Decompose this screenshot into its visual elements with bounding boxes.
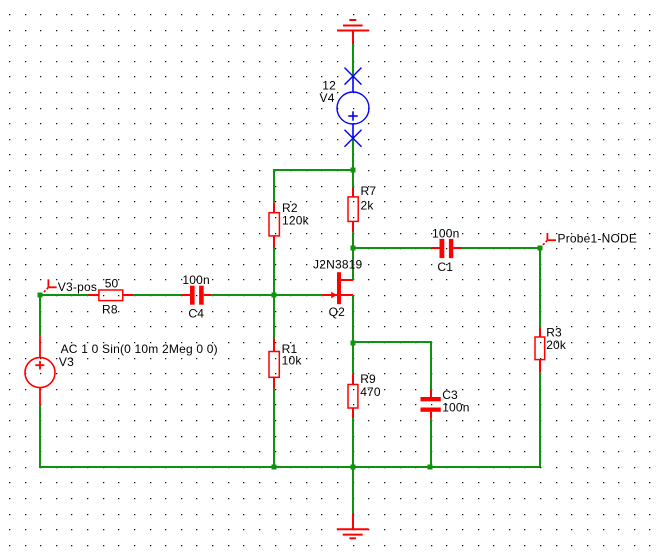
wire: R2 bottom to gate node: [273, 248, 275, 296]
wire: C4 to gate node: [212, 294, 274, 296]
capacitor C1: [440, 239, 454, 258]
node: V3-pos junction: [38, 293, 43, 298]
node: R1 bus junction: [272, 465, 277, 470]
svg-text:V3: V3: [59, 355, 74, 369]
resistor R3: [535, 327, 545, 372]
wire: V3-pos node to R8: [40, 294, 89, 296]
svg-text:V3-pos: V3-pos: [58, 280, 97, 294]
node: Probe1-NODE junction: [538, 246, 543, 251]
svg-text:100n: 100n: [432, 227, 460, 241]
voltage source V4: [337, 68, 369, 147]
node: source junction: [351, 341, 356, 346]
svg-text:R8: R8: [102, 303, 118, 317]
svg-text:C1: C1: [437, 260, 453, 274]
node: V+ rail T junction: [351, 168, 356, 173]
node: ground bus junction: [351, 465, 356, 470]
wire: source node to C3 branch corner: [353, 342, 431, 390]
svg-text:Probe1-NODE: Probe1-NODE: [558, 232, 638, 246]
resistor R2: [269, 202, 279, 247]
wire: drain node down to Q2 drain lead: [352, 248, 354, 280]
capacitor C4: [190, 286, 204, 305]
svg-text:J2N3819: J2N3819: [313, 257, 363, 271]
svg-text:20k: 20k: [546, 338, 567, 352]
wire: gate node horizontal to Q2 gate: [274, 294, 322, 296]
svg-text:2k: 2k: [361, 199, 375, 213]
resistor R8: [89, 290, 134, 301]
wire: ground bus right section: [274, 466, 540, 468]
svg-text:AC 1 0 Sin(0 10m 2Meg 0 0): AC 1 0 Sin(0 10m 2Meg 0 0): [61, 342, 218, 356]
wire: ground bus junction down to bottom ground: [352, 467, 354, 513]
wire: R7 bottom to drain node: [352, 232, 354, 248]
wire: drain node to C1 left: [353, 247, 431, 249]
probe flag V3-pos: [43, 279, 57, 293]
wire: V3 bottom to ground bus corner: [40, 405, 274, 467]
ground GND2 (bottom): [337, 513, 369, 538]
svg-text:50: 50: [105, 276, 119, 290]
wire: V+ rail horizontal to R2 branch: [274, 170, 353, 202]
wire: probe node down to R3: [539, 248, 541, 327]
node: drain junction: [351, 246, 356, 251]
wire: V+ junction down to R7: [352, 170, 354, 187]
voltage source V3: [25, 336, 55, 405]
resistor R7: [348, 187, 358, 232]
wire: R8 to C4: [134, 294, 182, 296]
svg-text:C4: C4: [188, 307, 204, 321]
wire: V3-pos node down to V3: [39, 295, 41, 336]
wire: C1 right to probe node: [462, 247, 540, 249]
transistor Q2 J2N3819 JFET: [331, 272, 341, 304]
wire: R3 bottom to ground bus corner: [539, 372, 541, 467]
svg-text:120k: 120k: [282, 213, 310, 227]
wire: R1 bottom to ground bus: [273, 389, 275, 467]
svg-text:R7: R7: [361, 184, 377, 198]
wire: top ground stem to V4: [352, 44, 354, 76]
resistor R9: [348, 374, 358, 418]
svg-text:100n: 100n: [442, 401, 470, 415]
probe flag Probe1-NODE: [542, 233, 556, 246]
wire: R9 bottom to ground bus: [352, 418, 354, 468]
svg-text:10k: 10k: [282, 354, 303, 368]
node: C3 bus junction: [428, 465, 433, 470]
svg-text:Q2: Q2: [329, 305, 346, 319]
node: gate junction: [272, 293, 277, 298]
svg-text:470: 470: [360, 385, 381, 399]
wire: V4 bottom to V+ rail junction: [352, 139, 354, 171]
wire: Q2 source lead down to source node: [352, 295, 354, 343]
wire: source node down to R9: [352, 343, 354, 374]
svg-text:V4: V4: [320, 91, 335, 105]
wire: C3 bottom to ground bus: [430, 419, 432, 467]
ground GND1 (top, inverted): [337, 20, 369, 44]
resistor R1: [269, 339, 279, 389]
svg-text:100n: 100n: [182, 273, 210, 287]
wire: gate node down to R1: [273, 295, 275, 339]
capacitor C3: [421, 397, 441, 412]
